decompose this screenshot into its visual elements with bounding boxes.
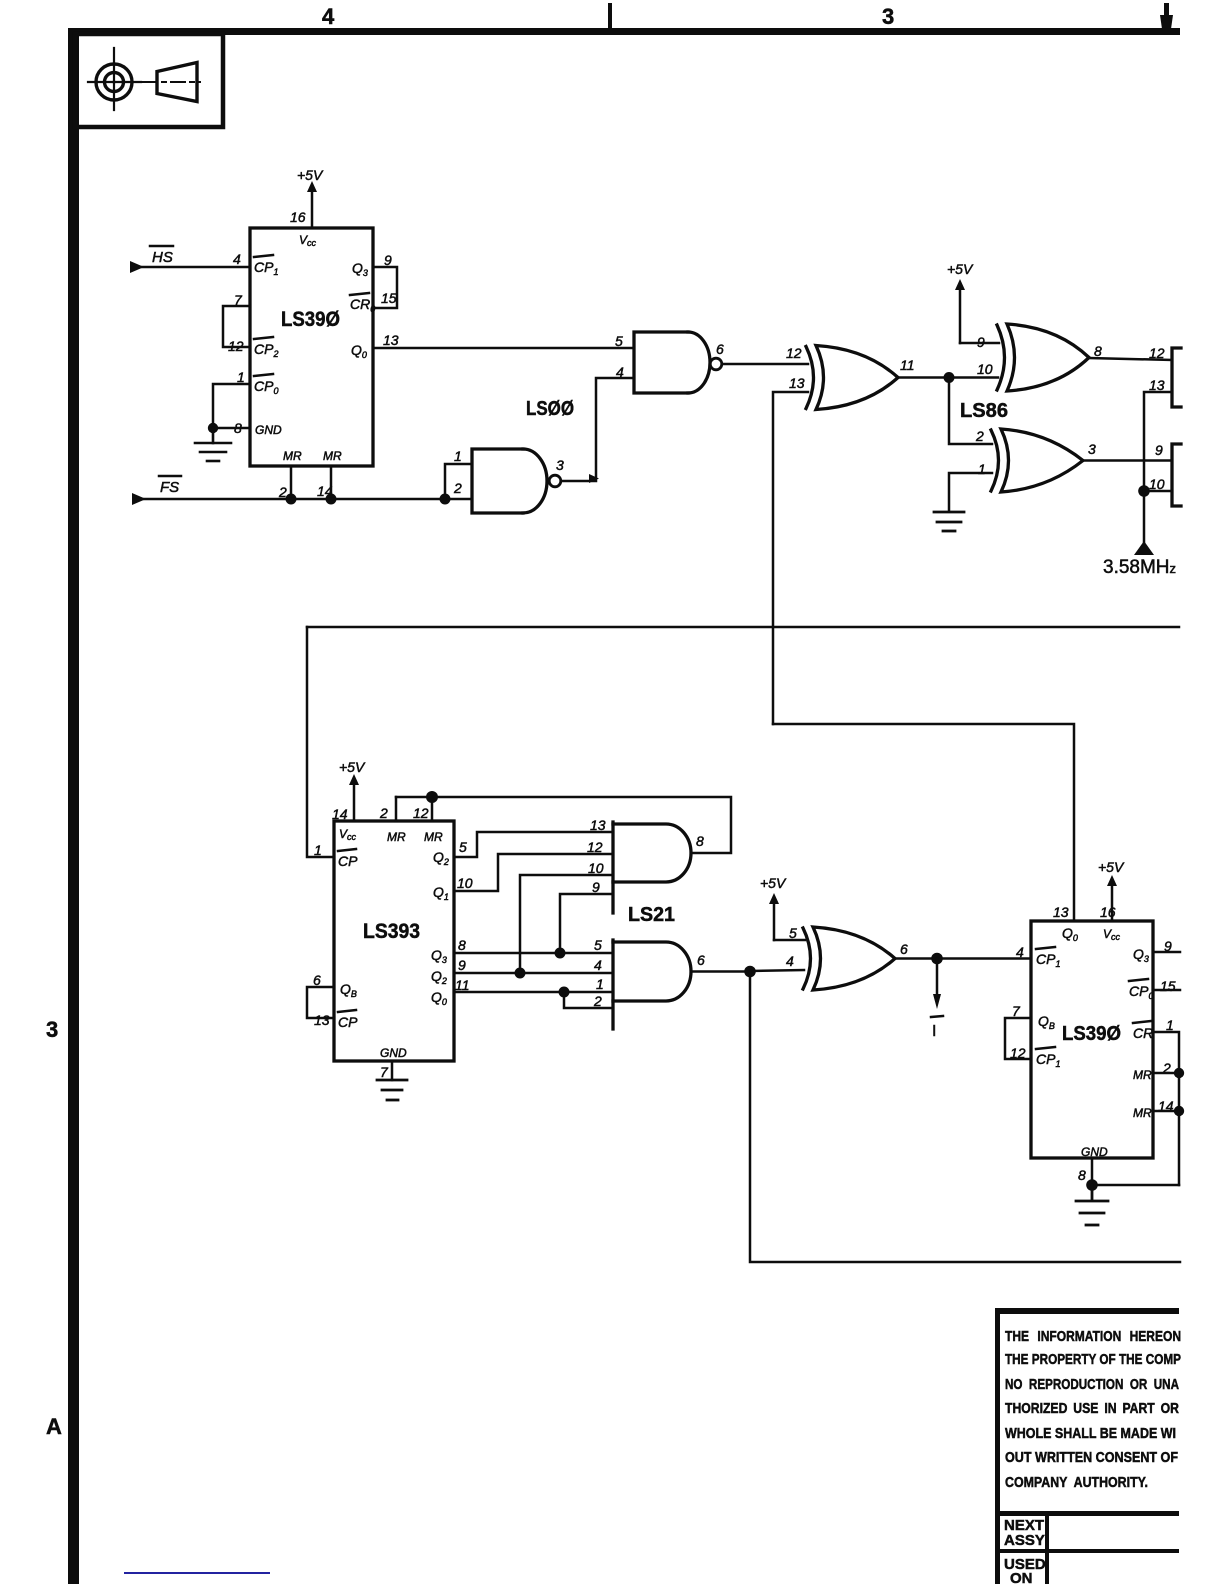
wire U2 Q1 to A1 pin12 bbox=[454, 854, 613, 891]
U2 pin 9 Q2 bbox=[431, 957, 466, 986]
svg-text:GND: GND bbox=[380, 1046, 407, 1060]
svg-text:5: 5 bbox=[459, 839, 467, 855]
sheet border left bbox=[68, 28, 79, 1584]
AND gate A2 LS21 bbox=[613, 940, 691, 1029]
U2 pin 8 Q3 bbox=[431, 937, 466, 965]
wire Q2 branch to A1 pin10 bbox=[520, 875, 613, 973]
svg-text:WHOLE SHALL BE MADE WI: WHOLE SHALL BE MADE WI bbox=[1005, 1426, 1176, 1442]
svg-text:12: 12 bbox=[1010, 1045, 1026, 1061]
wire U3 pin14 right bbox=[1153, 1110, 1179, 1113]
svg-text:2: 2 bbox=[593, 993, 602, 1009]
junction MR2 on FS line bbox=[286, 494, 297, 505]
wire U3 gnd rail horizontal bbox=[1092, 1184, 1179, 1187]
U2 pin 13 CP label bbox=[314, 1010, 358, 1030]
used on cell divider bbox=[1045, 1553, 1049, 1584]
next assy bottom line bbox=[995, 1549, 1179, 1553]
wire U3 pin2 right bbox=[1153, 1072, 1179, 1075]
svg-text:13: 13 bbox=[789, 375, 805, 391]
U1 MR pins labels bbox=[278, 449, 342, 500]
zone tick top bbox=[608, 3, 612, 29]
IC U3 LS390 body bbox=[1031, 921, 1153, 1158]
junction U3 gnd bbox=[1086, 1179, 1098, 1191]
IC U1 LS390 body bbox=[250, 228, 373, 466]
svg-text:2: 2 bbox=[379, 805, 388, 821]
svg-text:MR: MR bbox=[424, 830, 443, 844]
svg-text:LSØØ: LSØØ bbox=[526, 398, 574, 420]
svg-text:MR: MR bbox=[283, 449, 302, 463]
U3 pin 13 Q0 top bbox=[1053, 904, 1078, 943]
svg-text:1: 1 bbox=[314, 842, 322, 858]
wire G6 out to U3 pin4 bbox=[895, 957, 1031, 960]
wire U2 Q2 to A1 pin13 bbox=[454, 832, 613, 857]
wire node to G6 pin4 bbox=[750, 970, 804, 971]
wire G5 out to bracket pin9 bbox=[1083, 459, 1172, 462]
G6 pin labels 5 4 6 bbox=[786, 925, 908, 969]
wire bus x773 to x1074 down to U3 Q0 bbox=[773, 724, 1074, 921]
svg-text:FS: FS bbox=[160, 479, 179, 496]
wire U3 pin1 to gnd rail bbox=[1153, 1032, 1179, 1185]
svg-text:4: 4 bbox=[786, 953, 794, 969]
G3 pin labels 12 13 11 bbox=[786, 345, 915, 391]
wire U1 MR pin2 down bbox=[290, 466, 293, 499]
U1 pin 4 CP1 label bbox=[233, 251, 278, 277]
ground symbol G5 bbox=[934, 512, 964, 531]
svg-text:3: 3 bbox=[46, 1017, 58, 1042]
svg-text:1: 1 bbox=[978, 461, 986, 477]
junction FS branch G2 pin1 bbox=[440, 494, 451, 505]
G1 pin labels 5 4 6 bbox=[615, 333, 724, 380]
bracket connector pins 9 10 bbox=[1172, 444, 1181, 506]
wire U1 pin7 to pin12 loop bbox=[223, 306, 250, 347]
XOR gate G3 LS86 bbox=[806, 346, 898, 410]
svg-text:MR: MR bbox=[323, 449, 342, 463]
wire G2 out to G1 pin4 bbox=[561, 378, 634, 481]
svg-text:1: 1 bbox=[237, 369, 245, 385]
svg-text:4: 4 bbox=[594, 957, 602, 973]
U1 pin 9 Q3 bbox=[352, 252, 392, 278]
svg-text:8: 8 bbox=[458, 937, 466, 953]
U3 pin 4 CP1 label bbox=[1016, 944, 1060, 969]
wire U2 Q2b to A2 pin4 bbox=[454, 972, 613, 975]
projection symbol box bbox=[75, 34, 223, 127]
wire U3 pin9 right bbox=[1153, 951, 1180, 954]
wire U2 Q3 to A2 pin5 bbox=[454, 952, 613, 955]
U1 pin 12 CP2 label bbox=[228, 337, 278, 359]
used on label bbox=[1004, 1556, 1046, 1584]
svg-text:10: 10 bbox=[588, 860, 604, 876]
svg-text:ON: ON bbox=[1010, 1570, 1033, 1584]
U2 pin 10 Q1 bbox=[433, 875, 473, 902]
U3 pin 1 CR bbox=[1133, 1017, 1174, 1041]
svg-text:THORIZED USE IN PART OR: THORIZED USE IN PART OR bbox=[1005, 1401, 1179, 1417]
svg-text:11: 11 bbox=[455, 977, 470, 993]
projection symbol circle bbox=[88, 48, 141, 110]
svg-text:10: 10 bbox=[977, 361, 993, 377]
U3 pin 7 QB bbox=[1012, 1003, 1055, 1031]
next assy cell divider bbox=[1045, 1511, 1049, 1551]
U2 pin 5 Q2 bbox=[433, 839, 467, 867]
next assy label bbox=[1004, 1517, 1045, 1549]
wire bracket pin13 to 3.58MHz node bbox=[1144, 392, 1172, 491]
XOR gate G6 LS86 bbox=[803, 927, 895, 990]
svg-text:12: 12 bbox=[413, 805, 429, 821]
info box top border bbox=[995, 1308, 1179, 1314]
svg-text:1: 1 bbox=[454, 448, 462, 464]
U3 pin 16 Vcc +5V bbox=[1098, 859, 1125, 942]
svg-text:GND: GND bbox=[1081, 1145, 1108, 1159]
svg-text:HS: HS bbox=[152, 249, 173, 266]
svg-text:LS39Ø: LS39Ø bbox=[1062, 1023, 1121, 1045]
G2 output bubble bbox=[549, 475, 561, 487]
input HS arrow bbox=[130, 246, 250, 273]
wire U1 MR pin14 down bbox=[330, 466, 333, 499]
svg-text:THE INFORMATION HEREON: THE INFORMATION HEREON bbox=[1005, 1329, 1181, 1345]
wire Q3 branch to A1 pin9 bbox=[560, 894, 613, 953]
U2 pin 11 Q0 bbox=[431, 977, 470, 1007]
junction 3.58MHz node bbox=[1138, 485, 1150, 497]
+5V for G4 pin9 bbox=[947, 261, 999, 343]
G2 pin labels 1 2 bbox=[453, 448, 462, 496]
junction A2 output node bbox=[744, 966, 756, 978]
junction U1 ground bbox=[208, 423, 218, 433]
svg-text:9: 9 bbox=[977, 334, 985, 350]
wire G1 out to XOR G3 pin12 bbox=[722, 363, 808, 366]
svg-text:NO REPRODUCTION OR UNA: NO REPRODUCTION OR UNA bbox=[1005, 1377, 1179, 1393]
svg-text:2: 2 bbox=[975, 428, 984, 444]
U2 pin 1 CP label bbox=[314, 842, 358, 869]
svg-text:11: 11 bbox=[900, 357, 915, 373]
U3 pin 8 GND bbox=[1078, 1145, 1108, 1185]
svg-text:MR: MR bbox=[1133, 1106, 1152, 1120]
svg-text:GND: GND bbox=[255, 423, 282, 437]
ground symbol U3 bbox=[1076, 1185, 1108, 1225]
svg-text:5: 5 bbox=[789, 925, 797, 941]
zone arrow top right bbox=[1160, 3, 1173, 29]
svg-text:9: 9 bbox=[458, 957, 466, 973]
ground symbol U1 bbox=[195, 428, 231, 461]
svg-text:15: 15 bbox=[381, 290, 397, 306]
info box left border bbox=[995, 1310, 1000, 1584]
bracket connector pins 12 13 bbox=[1172, 348, 1181, 407]
projection symbol cone bbox=[143, 63, 200, 102]
AND gate A1 LS21 bbox=[613, 822, 691, 913]
wire U1 pin9 to pin15 loop bbox=[373, 267, 397, 308]
3.58MHz source arrow bbox=[1134, 491, 1154, 555]
wire U2 pin6 to pin13 loop bbox=[307, 987, 334, 1018]
wire U3 pin7 to pin12 loop bbox=[1005, 1018, 1031, 1059]
U1 pin 15 CR0 label bbox=[350, 290, 397, 314]
wire G5 pin1 from ground bbox=[949, 473, 992, 511]
svg-text:1: 1 bbox=[596, 976, 604, 992]
wire node to G5 pin2 bbox=[949, 378, 992, 445]
svg-text:6: 6 bbox=[900, 941, 908, 957]
U3 pin 2 MR bbox=[1133, 1060, 1171, 1082]
G5 pin labels 2 1 3 bbox=[975, 428, 1096, 477]
svg-text:+5V: +5V bbox=[947, 261, 974, 277]
svg-text:A: A bbox=[46, 1414, 62, 1439]
junction G6 output node bbox=[931, 953, 943, 965]
svg-text:THE PROPERTY OF THE COMP: THE PROPERTY OF THE COMP bbox=[1005, 1352, 1181, 1368]
info divider line bbox=[995, 1511, 1179, 1516]
G4 pin labels 9 10 8 bbox=[977, 334, 1102, 377]
U2 MR pin 12 bbox=[413, 797, 443, 844]
svg-text:7: 7 bbox=[380, 1064, 389, 1080]
IC U2 LS393 body bbox=[334, 821, 454, 1061]
wire G2 pin1 loop bbox=[445, 464, 472, 499]
wire bus horizontal y627 bbox=[307, 626, 1179, 629]
svg-text:9: 9 bbox=[1155, 442, 1163, 458]
U1 pin 8 GND bbox=[234, 420, 282, 437]
svg-text:CR: CR bbox=[1133, 1025, 1153, 1041]
wire FS to NAND G2 pin2 bbox=[142, 498, 472, 501]
wire G4 out to bracket pin12 bbox=[1089, 358, 1172, 360]
wire U1 pin1 to gnd rail bbox=[213, 384, 250, 428]
svg-text:+5V: +5V bbox=[760, 875, 787, 891]
svg-text:8: 8 bbox=[1094, 343, 1102, 359]
svg-text:LS86: LS86 bbox=[960, 400, 1008, 422]
input FS arrow bbox=[132, 476, 181, 505]
NAND gate G2 LS00 bbox=[472, 449, 547, 513]
svg-text:I: I bbox=[932, 1023, 936, 1040]
svg-text:1: 1 bbox=[1166, 1017, 1174, 1033]
svg-text:15: 15 bbox=[1160, 978, 1176, 994]
svg-text:2: 2 bbox=[278, 484, 287, 500]
svg-text:10: 10 bbox=[457, 875, 473, 891]
svg-text:CP: CP bbox=[338, 1014, 358, 1030]
junction Q3 branch bbox=[555, 948, 566, 959]
svg-text:MR: MR bbox=[387, 830, 406, 844]
U3 pin 9 Q3 bbox=[1133, 938, 1172, 964]
svg-text:+5V: +5V bbox=[339, 759, 366, 775]
U3 pin 14 MR bbox=[1133, 1098, 1174, 1120]
wire Q0 branch to A2 pin2 bbox=[564, 992, 613, 1008]
junction Q2 branch bbox=[515, 968, 526, 979]
svg-text:3: 3 bbox=[1088, 441, 1096, 457]
junction G3 output node bbox=[944, 372, 955, 383]
U2 pin 6 QB bbox=[313, 972, 357, 999]
U1 pin 13 Q0 bbox=[351, 332, 399, 360]
wire corner arrow mark bbox=[589, 474, 599, 483]
svg-text:COMPANY AUTHORITY.: COMPANY AUTHORITY. bbox=[1005, 1475, 1148, 1491]
U1 pin 16 Vcc +5V bbox=[290, 167, 324, 248]
svg-text:4: 4 bbox=[233, 251, 241, 267]
svg-text:12: 12 bbox=[228, 338, 244, 354]
U3 pin 15 CP0 bbox=[1129, 978, 1176, 1001]
svg-text:3: 3 bbox=[556, 457, 564, 473]
signal I-bar arrow down bbox=[931, 959, 943, 1041]
svg-text:6: 6 bbox=[716, 341, 724, 357]
svg-text:+5V: +5V bbox=[1098, 859, 1125, 875]
svg-text:MR: MR bbox=[1133, 1068, 1152, 1082]
svg-text:ASSY: ASSY bbox=[1004, 1532, 1045, 1549]
svg-text:16: 16 bbox=[290, 209, 306, 225]
svg-text:OUT WRITTEN CONSENT OF: OUT WRITTEN CONSENT OF bbox=[1005, 1450, 1178, 1466]
svg-text:6: 6 bbox=[697, 952, 705, 968]
XOR gate G5 LS86 bbox=[991, 429, 1083, 492]
svg-text:16: 16 bbox=[1100, 904, 1116, 920]
svg-text:3.58MHz: 3.58MHz bbox=[1103, 557, 1176, 578]
svg-text:8: 8 bbox=[1078, 1167, 1086, 1183]
wire MR bus to A1 output bbox=[396, 797, 731, 853]
U1 pin 1 CP0 label bbox=[237, 369, 278, 396]
wire bus left down to U2 pin1 bbox=[307, 627, 334, 857]
wire U2 Q0 to A2 pin1 bbox=[454, 991, 613, 994]
svg-text:12: 12 bbox=[1149, 345, 1165, 361]
svg-text:3: 3 bbox=[882, 4, 894, 29]
svg-text:+5V: +5V bbox=[297, 167, 324, 183]
svg-text:5: 5 bbox=[615, 333, 623, 349]
svg-text:LS393: LS393 bbox=[363, 920, 420, 943]
svg-text:4: 4 bbox=[1016, 944, 1024, 960]
wire HS to U1 pin4 bbox=[140, 266, 250, 269]
svg-text:7: 7 bbox=[1012, 1003, 1021, 1019]
G1 output bubble bbox=[710, 358, 722, 370]
junction U3 pin2 rail bbox=[1174, 1068, 1184, 1078]
wire U1 pin8 to ground bbox=[213, 427, 250, 430]
svg-text:10: 10 bbox=[1149, 476, 1165, 492]
svg-text:9: 9 bbox=[384, 252, 392, 268]
svg-text:2: 2 bbox=[453, 480, 462, 496]
junction U3 pin14 rail bbox=[1174, 1106, 1184, 1116]
wire A2 out to node bbox=[692, 970, 750, 973]
junction MR12 on bus bbox=[426, 791, 438, 803]
junction MR14 on FS line bbox=[326, 494, 337, 505]
junction Q0 branch bbox=[559, 987, 570, 998]
svg-text:12: 12 bbox=[786, 345, 802, 361]
U2 MR pin 2 bbox=[379, 797, 406, 844]
wire G3 pin13 from lower bus bbox=[773, 392, 808, 724]
svg-text:13: 13 bbox=[590, 817, 606, 833]
svg-text:LS39Ø: LS39Ø bbox=[281, 308, 340, 331]
NAND gate G1 LS00 bbox=[634, 332, 710, 393]
XOR gate G4 LS86 bbox=[997, 324, 1089, 391]
svg-text:4: 4 bbox=[322, 4, 335, 29]
svg-text:13: 13 bbox=[1053, 904, 1069, 920]
svg-text:13: 13 bbox=[314, 1012, 330, 1028]
wire G3 out bbox=[898, 376, 998, 379]
svg-text:14: 14 bbox=[332, 806, 348, 822]
svg-text:CP: CP bbox=[338, 853, 358, 869]
svg-text:5: 5 bbox=[594, 937, 602, 953]
svg-text:12: 12 bbox=[587, 839, 603, 855]
svg-text:8: 8 bbox=[696, 833, 704, 849]
wire node to bracket pin10 bbox=[1144, 490, 1172, 493]
U2 pin 14 Vcc +5V bbox=[332, 759, 366, 842]
blue reference line bottom bbox=[125, 1572, 269, 1574]
U2 pin 7 GND ground bbox=[377, 1046, 407, 1100]
wire U3 pin15 right bbox=[1153, 989, 1180, 992]
svg-text:13: 13 bbox=[1149, 377, 1165, 393]
svg-text:13: 13 bbox=[383, 332, 399, 348]
svg-text:LS21: LS21 bbox=[628, 904, 675, 926]
U3 pin 12 CP1 label bbox=[1010, 1045, 1060, 1069]
svg-text:4: 4 bbox=[616, 364, 624, 380]
+5V for G6 pin5 bbox=[760, 875, 805, 940]
svg-text:6: 6 bbox=[313, 972, 321, 988]
svg-text:9: 9 bbox=[592, 879, 600, 895]
A2 pin labels 5 4 1 2 bbox=[593, 937, 604, 1009]
wire U1 Q0 to NAND G1 pin5 bbox=[373, 347, 634, 350]
wire node down to bottom bus bbox=[750, 972, 1180, 1263]
sheet border top bbox=[68, 28, 1180, 35]
